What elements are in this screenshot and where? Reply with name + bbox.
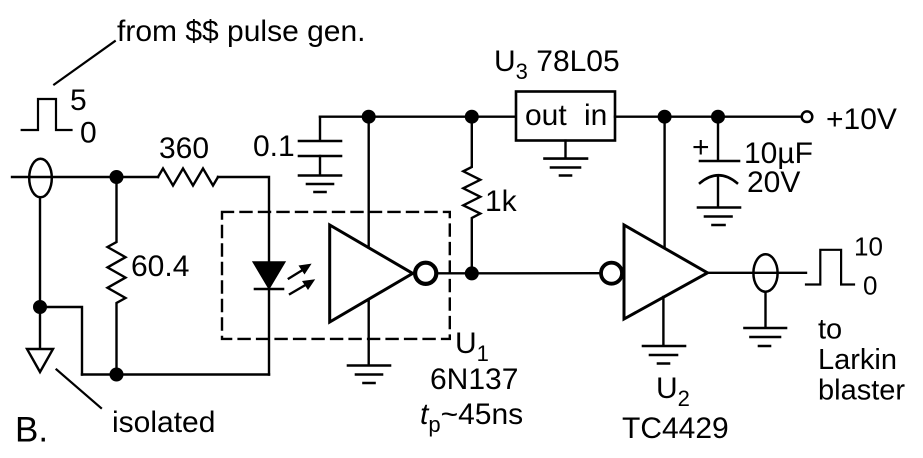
svg-text:+: + [692, 131, 710, 164]
connector J1 input oval [29, 159, 52, 197]
resistor R2 60.4 [108, 177, 126, 375]
node dot U1 output [466, 268, 478, 280]
svg-text:6N137: 6N137 [430, 363, 518, 396]
ground C2 [698, 208, 740, 226]
wire U3 gnd stub [564, 141, 566, 158]
wire U2 Vcc [663, 117, 665, 248]
node dot rail C2 [712, 111, 724, 123]
light arrow 2 [290, 279, 315, 294]
svg-text:U2: U2 [656, 372, 690, 411]
capacitor C2 lead [717, 117, 719, 160]
svg-text:in: in [584, 99, 607, 132]
wire 5V rail [320, 115, 516, 117]
terminal +10V open circle [802, 111, 813, 122]
ground C1 [299, 176, 341, 193]
svg-text:out: out [525, 99, 567, 132]
wire U2 output [708, 272, 807, 274]
capacitor C2 top plate [700, 160, 739, 163]
node dot input junction [111, 171, 123, 183]
ground U1 [348, 366, 390, 384]
wire input horizontal [12, 176, 158, 178]
svg-text:to: to [818, 314, 842, 346]
svg-text:Larkin: Larkin [818, 344, 897, 376]
node dot rail U1 vcc [363, 111, 375, 123]
wire J2 shield stub [764, 293, 766, 327]
node dot shield junction [34, 301, 46, 313]
svg-text:60.4: 60.4 [131, 250, 189, 283]
svg-text:10: 10 [854, 232, 883, 262]
ground U2 [643, 346, 685, 364]
svg-text:U3 78L05: U3 78L05 [494, 45, 620, 84]
ground U3 [545, 159, 588, 176]
resistor R1 360 [158, 169, 218, 186]
svg-text:blaster: blaster [818, 375, 905, 407]
op-amp U1 buffer triangle [330, 225, 413, 322]
pointer line pulse gen [54, 41, 115, 84]
svg-text:0.1: 0.1 [253, 130, 295, 163]
svg-text:from $$ pulse gen.: from $$ pulse gen. [117, 15, 365, 48]
wire 10V rail [615, 115, 800, 117]
wire R1 to LED anode [218, 177, 269, 262]
node dot R2 bottom [111, 369, 123, 381]
resistor R3 1k [463, 117, 480, 274]
pulse symbol output [806, 250, 854, 285]
regulator U3 box [516, 92, 615, 141]
svg-text:0: 0 [863, 271, 877, 301]
svg-text:TC4429: TC4429 [622, 412, 729, 445]
wire shield elbow to bottom rail [40, 307, 82, 375]
wire J1 shield down [39, 198, 41, 307]
LED cathode bar [255, 288, 283, 291]
wire U1 gnd stub [368, 300, 370, 365]
capacitor C1 lower lead [319, 156, 321, 174]
svg-text:tp~45ns: tp~45ns [420, 398, 523, 437]
LED D1 [254, 262, 284, 287]
capacitor C1 0.1 lead [319, 117, 321, 140]
capacitor C2 lower lead [717, 177, 719, 206]
wire U1 output to node [437, 272, 472, 274]
svg-text:20V: 20V [747, 166, 800, 199]
pointer line isolated [57, 370, 102, 409]
svg-text:1k: 1k [485, 185, 518, 218]
connector J2 output oval [753, 254, 777, 291]
svg-text:B.: B. [15, 411, 48, 450]
svg-text:0: 0 [80, 117, 97, 150]
U1 inversion bubble [415, 263, 436, 284]
wire U2 gnd stub [662, 297, 664, 345]
node dot rail U2 vcc [659, 111, 671, 123]
optocoupler U1 dashed box [222, 212, 450, 339]
wire bottom return rail [82, 373, 269, 375]
ground J2 [745, 328, 787, 346]
ground isolated triangle [27, 307, 53, 372]
wire node to U2 input [472, 272, 600, 274]
svg-text:+10V: +10V [826, 103, 897, 136]
light arrow 1 [289, 264, 312, 279]
U2 inversion bubble [601, 263, 622, 284]
pulse symbol input [22, 99, 72, 130]
svg-text:5: 5 [70, 84, 87, 117]
node dot rail 1k [466, 111, 478, 123]
capacitor C1 plates [299, 141, 341, 156]
svg-text:isolated: isolated [112, 406, 215, 439]
LED cathode wire down [268, 289, 270, 375]
capacitor C2 curved plate [700, 175, 737, 183]
svg-text:U1: U1 [455, 327, 489, 366]
op-amp U2 driver triangle [624, 225, 708, 319]
svg-text:360: 360 [159, 132, 209, 165]
wire U1 Vcc [368, 117, 370, 248]
